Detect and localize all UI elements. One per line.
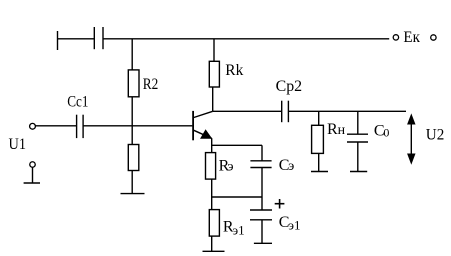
capacitor Cc1 (right plate)	[82, 115, 84, 138]
wire (output node down to C0)	[357, 111, 359, 134]
wire (emitter node to Cэ, top)	[212, 144, 262, 146]
polarity mark + (Cэ1)	[275, 203, 285, 205]
svg-text:н: н	[338, 123, 346, 138]
resistor Rн	[312, 125, 324, 153]
resistor R2	[128, 70, 139, 97]
wire (left stub to filter cap)	[58, 38, 95, 40]
wire (rail down to R2)	[131, 39, 133, 70]
wire (rail down to Rk)	[213, 39, 215, 62]
terminal Ек (left circle)	[393, 35, 398, 40]
wire (Rн to ground)	[318, 153, 320, 171]
transistor VT1 (emitter arrow)	[201, 130, 211, 138]
wire (base node down to R1)	[131, 126, 133, 145]
wire (lower terminal to ground)	[32, 167, 34, 183]
wire (Cc1 to transistor base)	[83, 125, 192, 127]
wire (input to Cc1)	[35, 125, 76, 127]
capacitor (supply filter, left plate)	[93, 27, 95, 49]
wire (top supply rail)	[103, 38, 389, 40]
resistor Rэ1	[209, 210, 219, 237]
wire (Cp2 to output node)	[288, 110, 406, 112]
wire (emitter down to Rэ)	[211, 138, 213, 152]
resistor Rk	[209, 61, 219, 87]
wire (output node down to Rн)	[318, 111, 320, 125]
capacitor Cc1 (left plate)	[76, 115, 78, 138]
svg-text:U1: U1	[9, 136, 27, 153]
svg-text:э: э	[288, 159, 294, 174]
wire (collector node to Cp2)	[213, 110, 282, 112]
wire (R2 to base node)	[131, 97, 133, 126]
wire (mid node down to Rэ1)	[211, 197, 213, 210]
terminal (supply input, left bar)	[57, 31, 59, 50]
svg-text:Ек: Ек	[403, 29, 420, 46]
ground (under R1)	[121, 193, 145, 195]
ground (under lower input terminal)	[24, 182, 40, 184]
svg-text:э1: э1	[233, 222, 245, 237]
capacitor Cэ (bottom plate)	[250, 167, 271, 169]
wire (Rk to collector node)	[212, 87, 214, 111]
terminal (lower input circle)	[30, 162, 36, 168]
svg-text:0: 0	[383, 125, 389, 139]
wire (Cэ1 to ground)	[261, 220, 263, 244]
wire (R1 to ground)	[131, 171, 133, 194]
resistor Rэ	[206, 153, 216, 180]
wire (Rэ1 to ground)	[211, 236, 213, 251]
transistor VT1 (base bar)	[192, 111, 194, 140]
wire (Cэ to mid node)	[261, 168, 263, 198]
capacitor C0 (bottom plate)	[347, 141, 368, 143]
transistor VT1 (collector lead)	[194, 111, 213, 117]
ground (under C0)	[350, 171, 367, 173]
svg-text:U2: U2	[426, 127, 445, 144]
capacitor C0 (top plate)	[347, 133, 368, 135]
svg-text:э1: э1	[288, 218, 300, 233]
capacitor (supply filter, right plate)	[102, 27, 104, 49]
capacitor Cэ (top plate)	[250, 160, 271, 162]
svg-text:Cр2: Cр2	[276, 78, 303, 95]
wire (Rэ to mid node)	[211, 179, 213, 197]
capacitor Cp2 (right plate)	[287, 101, 289, 123]
capacitor Cэ1 (bottom plate)	[250, 219, 272, 221]
wire (mid node horizontal)	[212, 196, 262, 198]
capacitor Cp2 (left plate)	[281, 101, 283, 123]
svg-text:R2: R2	[143, 76, 159, 93]
svg-text:Cc1: Cc1	[67, 93, 88, 110]
ground (under Rэ1)	[203, 250, 225, 252]
wire (Cэ branch down from top wire)	[261, 145, 263, 161]
svg-text:Rk: Rk	[225, 62, 243, 79]
transistor VT1 (emitter lead)	[194, 130, 212, 138]
terminal U1 (input circle)	[30, 123, 36, 129]
svg-text:э: э	[228, 159, 234, 174]
ground (under Rн)	[311, 171, 328, 173]
wire (C0 to ground)	[357, 142, 359, 172]
svg-text:R: R	[327, 121, 338, 138]
wire (mid node down to Cэ1)	[261, 197, 263, 210]
ground (under Cэ1)	[254, 242, 272, 244]
arrow U2 (output voltage, double-headed)	[410, 117, 412, 162]
terminal Ек (right circle)	[431, 35, 436, 40]
capacitor Cэ1 (top plate)	[250, 209, 272, 211]
resistor R1	[128, 145, 139, 171]
